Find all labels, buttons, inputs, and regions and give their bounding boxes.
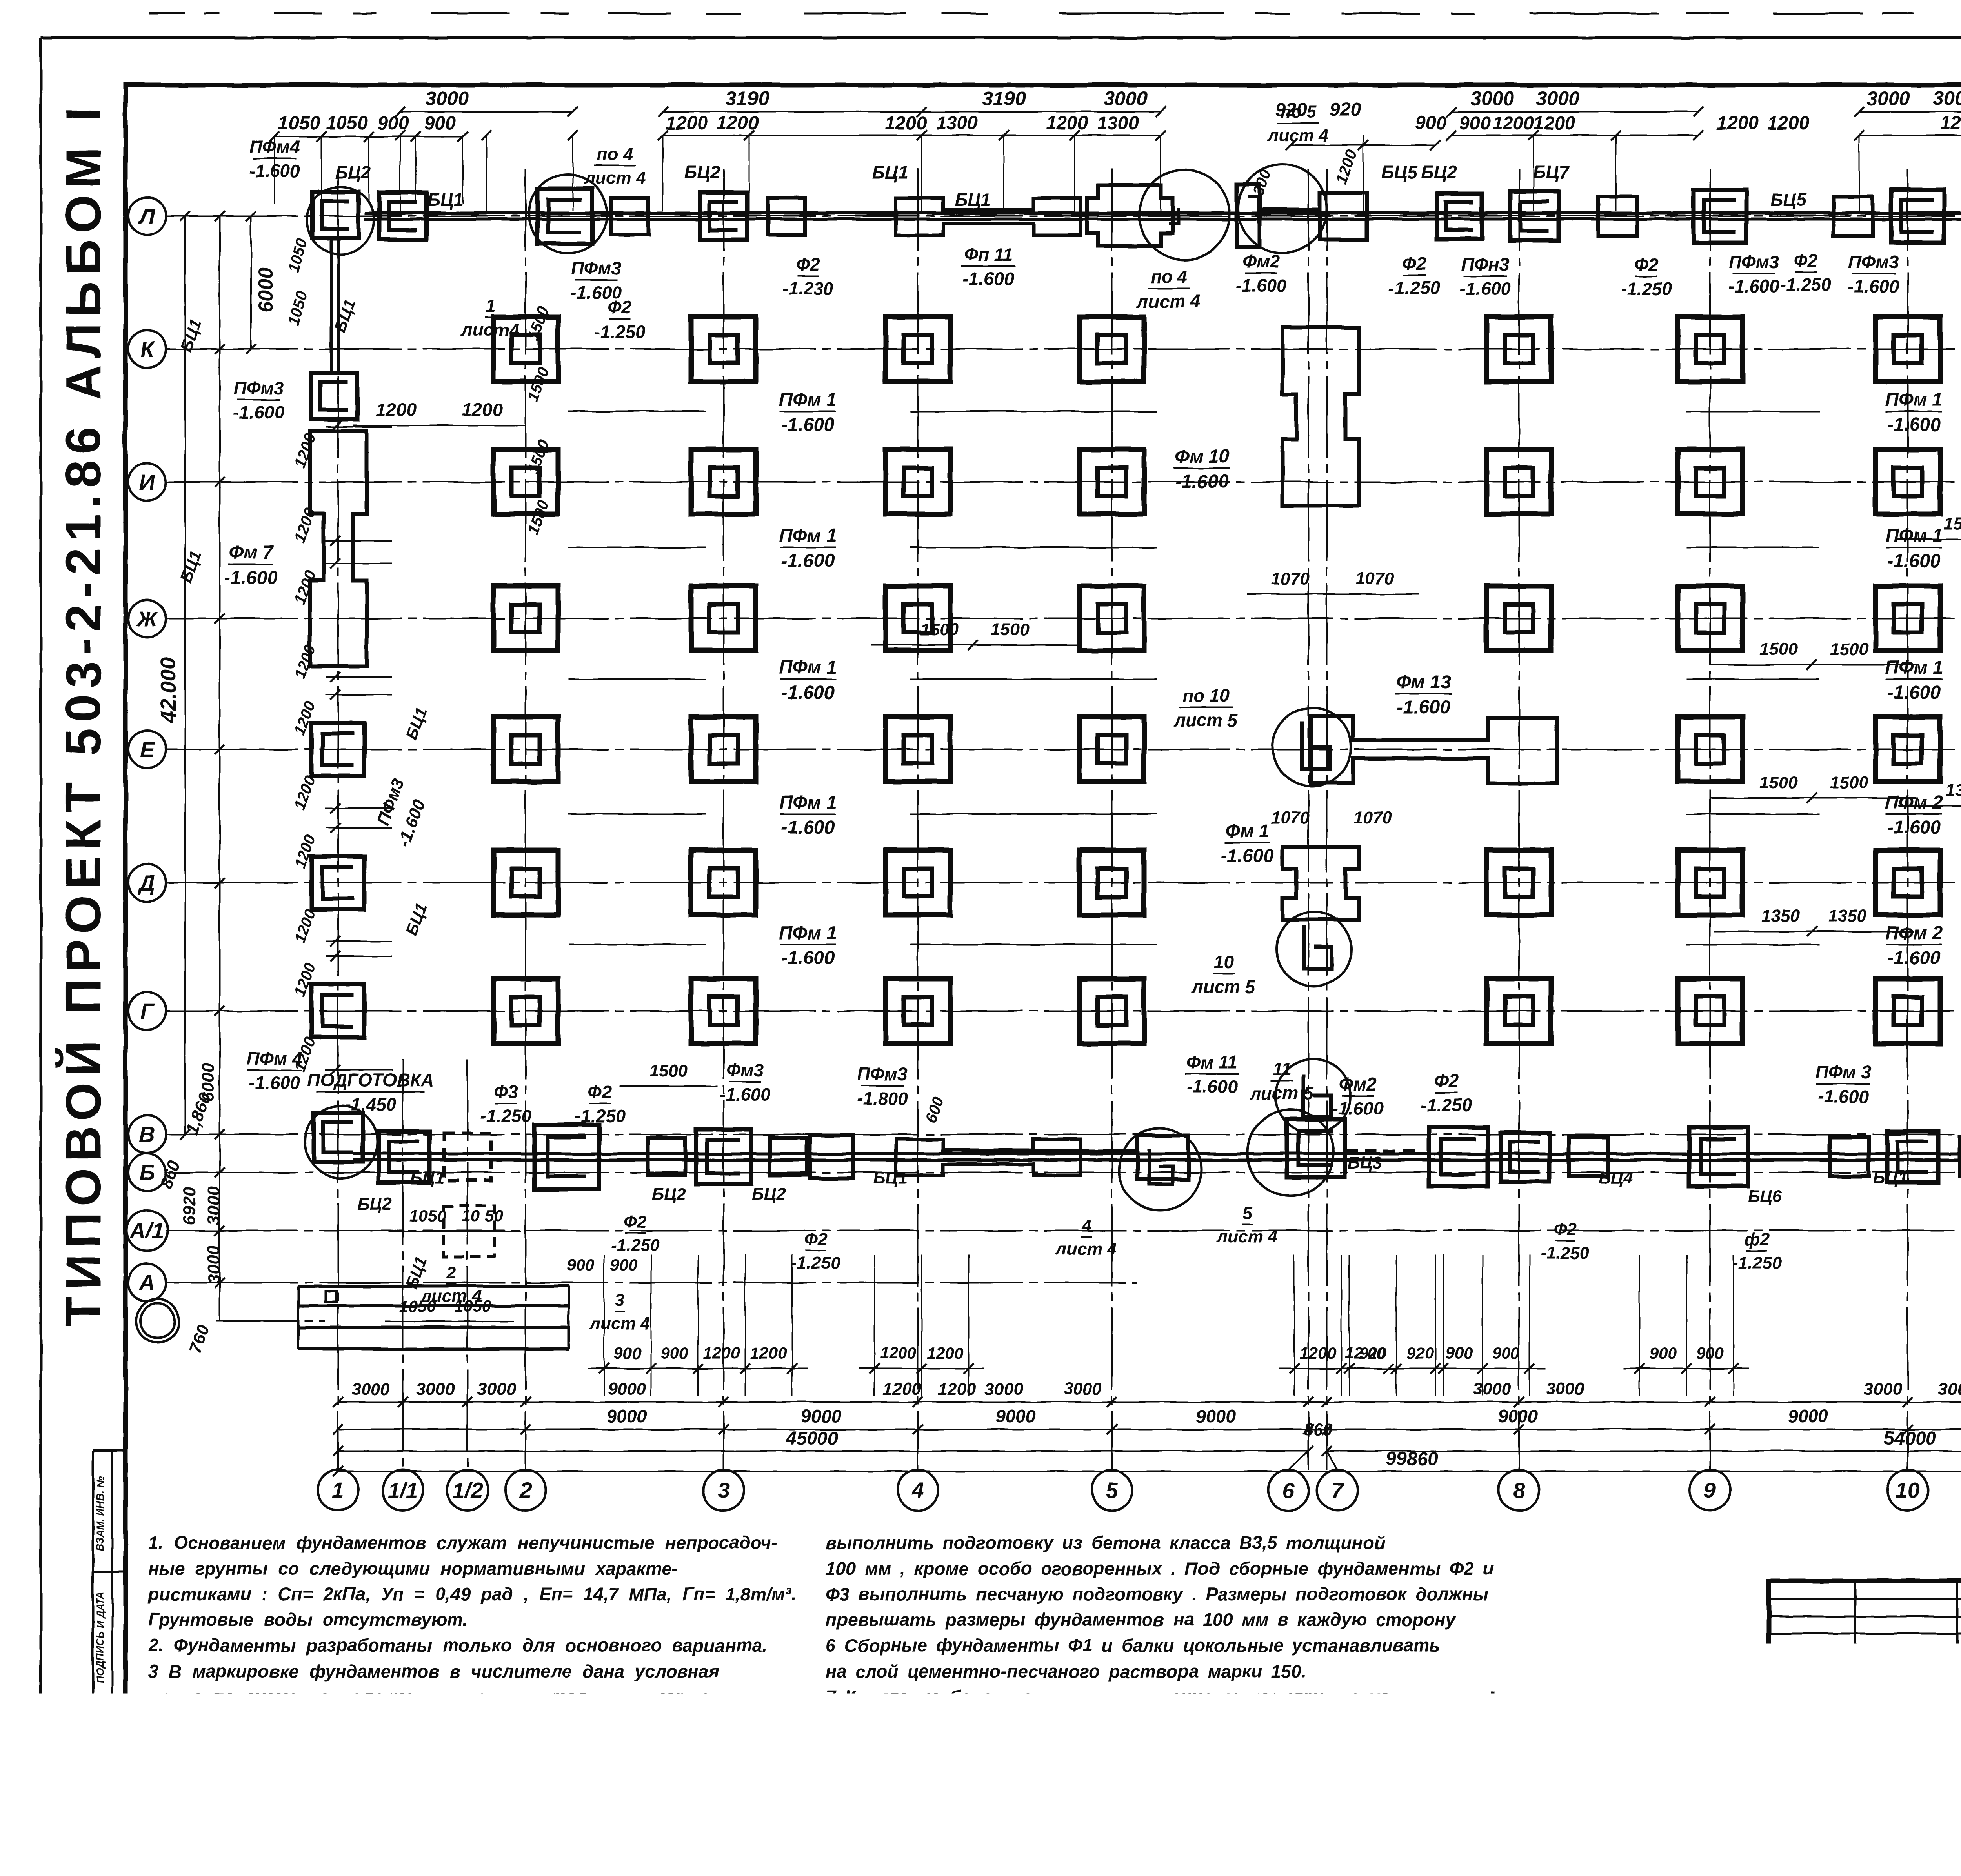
svg-text:3000: 3000 bbox=[416, 1380, 455, 1399]
svg-text:860: 860 bbox=[1303, 1420, 1332, 1439]
svg-text:по 10: по 10 bbox=[1182, 685, 1230, 706]
svg-text:1200: 1200 bbox=[376, 399, 417, 420]
svg-text:1200: 1200 bbox=[885, 113, 927, 134]
foundation ПФм1 3-Е bbox=[691, 717, 756, 782]
svg-text:Ж: Ж bbox=[136, 606, 158, 631]
svg-text:К: К bbox=[140, 337, 155, 362]
svg-text:В: В bbox=[139, 1122, 155, 1147]
svg-text:1200: 1200 bbox=[1299, 1344, 1336, 1362]
svg-text:6 Сборные фундаменты Ф1 и: 6 Сборные фундаменты Ф1 и балки цокольны… bbox=[826, 1635, 1440, 1656]
svg-text:900: 900 bbox=[424, 113, 456, 134]
svg-text:ПФм 2: ПФм 2 bbox=[1885, 923, 1943, 943]
svg-text:ПФн3: ПФн3 bbox=[1461, 254, 1510, 274]
svg-text:-1.600: -1.600 bbox=[1887, 414, 1941, 435]
svg-text:Ф2: Ф2 bbox=[804, 1230, 828, 1249]
svg-text:-1.250: -1.250 bbox=[611, 1236, 660, 1255]
foundation 1-Е bbox=[311, 723, 364, 776]
svg-text:ПФм 1: ПФм 1 bbox=[1885, 525, 1943, 546]
svg-text:ПФм 1: ПФм 1 bbox=[779, 525, 837, 546]
cross column icon по4 bbox=[1087, 185, 1173, 246]
svg-text:ПОДПИСЬ И ДАТА: ПОДПИСЬ И ДАТА bbox=[94, 1591, 106, 1683]
foundation ПФм1 9-Д bbox=[1678, 850, 1743, 915]
svg-text:-1.600: -1.600 bbox=[1848, 276, 1899, 296]
svg-text:5. Под монолитные фундаменты: 5. Под монолитные фундаменты и плиты фун… bbox=[148, 1789, 726, 1810]
svg-text:по 4: по 4 bbox=[597, 145, 633, 164]
svg-text:Ф2: Ф2 bbox=[1434, 1071, 1459, 1091]
svg-text:БЦ2: БЦ2 bbox=[1421, 162, 1457, 182]
foundation ПФм1 5-Д bbox=[1079, 850, 1144, 915]
extra bottom row line bbox=[216, 1320, 326, 1322]
svg-text:1200: 1200 bbox=[717, 113, 759, 134]
svg-text:-1.600: -1.600 bbox=[1818, 1086, 1869, 1107]
foundation ПФм1 2-И bbox=[493, 449, 558, 514]
svg-text:Рубан: Рубан bbox=[1859, 1746, 1899, 1761]
svg-text:Фп 11: Фп 11 bbox=[964, 244, 1013, 265]
svg-text:10: 10 bbox=[1896, 1478, 1920, 1503]
svg-text:8. Обратную засыпку пазух п: 8. Обратную засыпку пазух производить ме… bbox=[826, 1738, 1459, 1758]
svg-text:3000: 3000 bbox=[351, 1380, 390, 1399]
svg-text:ф2: ф2 bbox=[1745, 1230, 1770, 1249]
svg-text:920: 920 bbox=[1330, 100, 1361, 120]
outer sheet border bbox=[40, 38, 42, 1836]
svg-text:лист 4: лист 4 bbox=[589, 1314, 650, 1333]
svg-text:-1.250: -1.250 bbox=[1389, 278, 1440, 298]
svg-text:2: 2 bbox=[519, 1478, 531, 1503]
svg-text:-1.600: -1.600 bbox=[781, 682, 835, 703]
top dimension extension lines bbox=[400, 135, 401, 211]
svg-text:900: 900 bbox=[1445, 1344, 1473, 1362]
svg-text:7 Крепление балок цокольны: 7 Крепление балок цокольных к колонне вы… bbox=[826, 1687, 1395, 1707]
svg-text:300: 300 bbox=[1250, 167, 1275, 198]
svg-text:1050: 1050 bbox=[278, 113, 320, 134]
column base 4715-Б bbox=[1830, 1137, 1869, 1176]
svg-text:Гл. коностр.: Гл. коностр. bbox=[1773, 1746, 1858, 1761]
svg-text:1300: 1300 bbox=[1097, 113, 1139, 134]
svg-text:БЦ1: БЦ1 bbox=[872, 162, 908, 182]
svg-text:ПФм 4: ПФм 4 bbox=[247, 1048, 302, 1069]
svg-text:ИНВ. № ПОДЛ.: ИНВ. № ПОДЛ. bbox=[94, 1731, 106, 1806]
svg-text:Фм 13: Фм 13 bbox=[1396, 672, 1451, 693]
svg-text:номерно со всех сторон фун: номерно со всех сторон фундаментов слоям… bbox=[826, 1764, 1404, 1784]
svg-text:1500: 1500 bbox=[1830, 640, 1868, 659]
svg-text:900: 900 bbox=[567, 1256, 594, 1274]
svg-text:-1.600: -1.600 bbox=[781, 551, 835, 571]
svg-text:1500: 1500 bbox=[524, 304, 553, 343]
foundation ПФм1 8-И bbox=[1486, 449, 1551, 514]
svg-text:БЦ3: БЦ3 bbox=[1348, 1153, 1382, 1172]
empty double bubble bottom-left bbox=[136, 1299, 179, 1342]
svg-text:3 В маркировке фундаментов: 3 В маркировке фундаментов в числителе д… bbox=[148, 1661, 720, 1681]
по5 icon bbox=[1237, 184, 1259, 247]
svg-text:3000: 3000 bbox=[1104, 87, 1147, 109]
column base 4725-Л bbox=[1834, 196, 1873, 236]
svg-text:42.000: 42.000 bbox=[156, 657, 180, 723]
svg-text:1200: 1200 bbox=[291, 960, 319, 999]
svg-text:9000: 9000 bbox=[1788, 1406, 1828, 1426]
svg-text:лист 5: лист 5 bbox=[1173, 710, 1238, 730]
column base 1845-Л bbox=[700, 193, 747, 240]
beam БЦ1 down column 1 bbox=[330, 239, 333, 373]
foundation ПФм1 5-Г bbox=[1079, 979, 1144, 1043]
column base 2005-Л bbox=[768, 198, 805, 235]
svg-text:9000: 9000 bbox=[996, 1406, 1036, 1426]
foundation ПФм1 8-Г bbox=[1486, 979, 1551, 1043]
svg-text:БЦ2: БЦ2 bbox=[335, 162, 371, 182]
svg-text:1050: 1050 bbox=[285, 236, 311, 274]
foundation ПФм1 8-Д bbox=[1486, 850, 1551, 915]
svg-text:1500: 1500 bbox=[1759, 640, 1798, 659]
svg-text:3000: 3000 bbox=[985, 1380, 1023, 1399]
column base 3718-Б bbox=[1429, 1127, 1488, 1186]
svg-text:1500: 1500 bbox=[920, 620, 959, 639]
svg-text:Ф2: Ф2 bbox=[1554, 1220, 1577, 1239]
foundation ПФм1 3-Д bbox=[691, 850, 756, 915]
svg-text:2. Фундаменты разработаны то: 2. Фундаменты разработаны только для осн… bbox=[148, 1635, 767, 1656]
svg-text:99860: 99860 bbox=[1386, 1449, 1438, 1469]
top dimension lines bbox=[275, 136, 463, 137]
svg-text:ТИПОВОЙ ПРОЕКТ 503-2-21.86: ТИПОВОЙ ПРОЕКТ 503-2-21.86 АЛЬБОМ I bbox=[55, 101, 111, 1326]
svg-text:1200: 1200 bbox=[703, 1344, 740, 1362]
foundation 1-Д bbox=[311, 856, 364, 909]
svg-text:-1.250: -1.250 bbox=[1621, 278, 1672, 299]
svg-text:ПФм3: ПФм3 bbox=[234, 378, 284, 398]
svg-text:лист 5: лист 5 bbox=[1249, 1083, 1314, 1103]
svg-text:ПФм4: ПФм4 bbox=[249, 136, 300, 157]
svg-text:2: 2 bbox=[446, 1263, 456, 1282]
svg-text:Фм 1: Фм 1 bbox=[1225, 821, 1269, 842]
foundation ПФм1 5-Е bbox=[1079, 717, 1144, 782]
svg-text:1/2: 1/2 bbox=[452, 1478, 483, 1503]
svg-text:Л: Л bbox=[138, 204, 155, 229]
svg-text:3000: 3000 bbox=[204, 1187, 224, 1225]
svg-text:БЦ5: БЦ5 bbox=[1381, 162, 1418, 182]
svg-text:900: 900 bbox=[1696, 1344, 1724, 1362]
svg-text:1500: 1500 bbox=[524, 498, 553, 537]
column base 3913-Л bbox=[1510, 191, 1559, 240]
column base 1192-Б bbox=[444, 1133, 491, 1180]
foundation ПФм1 9-И bbox=[1678, 449, 1743, 514]
svg-text:Фм 10: Фм 10 bbox=[1175, 446, 1230, 467]
svg-text:-1.600: -1.600 bbox=[1236, 275, 1287, 296]
svg-text:3000: 3000 bbox=[204, 1245, 224, 1284]
svg-text:Д: Д bbox=[138, 871, 155, 895]
foundation ПФм1 3-Ж bbox=[691, 586, 756, 651]
svg-text:ПФм 1: ПФм 1 bbox=[779, 923, 837, 943]
svg-text:760: 760 bbox=[186, 1322, 213, 1356]
column base 4889-Л bbox=[1891, 190, 1944, 243]
column base 4385-Л bbox=[1694, 190, 1746, 243]
column axis lines bbox=[337, 169, 339, 1470]
svg-text:-1.600: -1.600 bbox=[1175, 471, 1229, 492]
svg-text:1200: 1200 bbox=[1940, 113, 1961, 134]
svg-text:900: 900 bbox=[614, 1344, 641, 1362]
column base 4382-Б bbox=[1689, 1127, 1748, 1186]
svg-text:-1.600: -1.600 bbox=[1460, 278, 1511, 299]
svg-text:1200: 1200 bbox=[938, 1380, 976, 1399]
svg-text:лист 4: лист 4 bbox=[1216, 1227, 1278, 1246]
svg-text:900: 900 bbox=[1492, 1344, 1520, 1362]
Ф2 dashed square below Б left bbox=[443, 1206, 494, 1257]
svg-text:10: 10 bbox=[1213, 952, 1234, 973]
svg-text:по 5: по 5 bbox=[1281, 102, 1316, 122]
svg-text:3000: 3000 bbox=[1866, 87, 1910, 109]
svg-text:Ф2: Ф2 bbox=[1794, 250, 1818, 271]
detail circle по5 top bbox=[1238, 164, 1327, 253]
svg-text:ристиками : Сп= 2кПа, Уп =: ристиками : Сп= 2кПа, Уп = 0,49 рад , Еп… bbox=[147, 1584, 796, 1604]
svg-text:-1.600: -1.600 bbox=[249, 161, 300, 181]
svg-text:-1.600: -1.600 bbox=[1186, 1076, 1238, 1097]
svg-text:6: 6 bbox=[1282, 1478, 1295, 1503]
foundation ПФм1 10-К bbox=[1876, 317, 1940, 382]
svg-text:-1.250: -1.250 bbox=[791, 1253, 840, 1272]
column base 1440-Л bbox=[537, 189, 592, 244]
row axis bubbles bbox=[128, 197, 166, 235]
svg-text:Фм2: Фм2 bbox=[1339, 1074, 1377, 1094]
svg-text:Инв. №: Инв. № bbox=[1504, 1808, 1561, 1825]
svg-text:ПФм 1: ПФм 1 bbox=[1885, 657, 1943, 678]
svg-text:900: 900 bbox=[661, 1344, 688, 1362]
svg-text:-1.250: -1.250 bbox=[480, 1106, 532, 1126]
top dimension upper line bbox=[400, 111, 573, 113]
left vertical dim line bbox=[219, 216, 220, 1321]
svg-text:3: 3 bbox=[717, 1478, 729, 1503]
detail circle ПФм3 top bbox=[529, 175, 607, 253]
bottom dim row 3000s bbox=[338, 1401, 1961, 1403]
H beam foundation row Б col4 bbox=[896, 1139, 1081, 1175]
svg-text:900: 900 bbox=[1459, 113, 1490, 134]
svg-text:6000: 6000 bbox=[255, 267, 277, 313]
row axis lines bbox=[216, 215, 1961, 217]
svg-text:1: 1 bbox=[332, 1478, 344, 1503]
foundation 1-Г bbox=[311, 984, 364, 1037]
svg-text:45000: 45000 bbox=[785, 1428, 838, 1449]
svg-text:БЦ2: БЦ2 bbox=[684, 162, 720, 182]
svg-text:по 4: по 4 bbox=[1150, 267, 1188, 287]
title block left table bbox=[1769, 1598, 1961, 1600]
svg-text:-1.600: -1.600 bbox=[1332, 1098, 1384, 1118]
svg-text:лу 1 серии 1.030.1-1, вып.: лу 1 серии 1.030.1-1, вып. 3-1. bbox=[825, 1712, 1109, 1732]
svg-text:Ф3: Ф3 bbox=[494, 1082, 518, 1102]
svg-text:Фм 11: Фм 11 bbox=[1186, 1052, 1237, 1073]
svg-text:-1.250: -1.250 bbox=[575, 1106, 626, 1126]
svg-text:ПФм 1: ПФм 1 bbox=[1885, 389, 1943, 410]
svg-text:-1.250: -1.250 bbox=[1541, 1243, 1590, 1263]
svg-text:лист 5: лист 5 bbox=[1191, 976, 1256, 997]
svg-text:3000: 3000 bbox=[425, 87, 469, 109]
svg-text:1050: 1050 bbox=[399, 1297, 436, 1315]
foundation ПФм1 9-К bbox=[1678, 317, 1743, 382]
svg-text:3: 3 bbox=[615, 1291, 624, 1310]
svg-text:1500: 1500 bbox=[649, 1061, 688, 1080]
svg-text:1070: 1070 bbox=[1271, 808, 1310, 827]
svg-text:ПФм3: ПФм3 bbox=[571, 258, 622, 278]
svg-text:Финкер: Финкер bbox=[1859, 1678, 1908, 1693]
foundation ПФм1 8-Ж bbox=[1486, 586, 1551, 651]
svg-text:3000: 3000 bbox=[1933, 87, 1961, 109]
svg-text:1500: 1500 bbox=[1830, 773, 1868, 792]
svg-text:7: 7 bbox=[1331, 1478, 1344, 1503]
svg-text:9000: 9000 bbox=[1196, 1406, 1236, 1426]
svg-text:1200: 1200 bbox=[1046, 113, 1088, 134]
svg-text:БЦ1: БЦ1 bbox=[1873, 1168, 1908, 1187]
svg-text:3000: 3000 bbox=[1938, 1380, 1961, 1399]
bottom dim row 99860 bbox=[338, 1471, 1961, 1472]
column base 1605-Л bbox=[611, 198, 648, 235]
svg-text:Е: Е bbox=[140, 737, 155, 762]
column base 1030-Б bbox=[378, 1131, 429, 1182]
svg-text:ГиП: ГиП bbox=[1773, 1678, 1799, 1693]
svg-text:8: 8 bbox=[1513, 1478, 1525, 1503]
bottom small dim groups bbox=[588, 1368, 808, 1369]
svg-text:1200: 1200 bbox=[883, 1380, 921, 1399]
svg-text:И: И bbox=[139, 470, 156, 494]
svg-text:БЦ4: БЦ4 bbox=[1599, 1168, 1633, 1187]
svg-text:БЦ2: БЦ2 bbox=[651, 1185, 686, 1204]
svg-text:1200: 1200 bbox=[1768, 113, 1810, 134]
foundation ПФм1 10-Г bbox=[1876, 979, 1940, 1043]
detail circle 5 bottom bbox=[1247, 1110, 1333, 1196]
svg-text:Вед. инж: Вед. инж bbox=[1773, 1789, 1832, 1804]
svg-text:превышать размеры фундамент: превышать размеры фундаментов на 100 мм … bbox=[826, 1609, 1457, 1630]
foundation ПФм1 2-К bbox=[493, 317, 558, 382]
svg-text:3000: 3000 bbox=[1470, 87, 1514, 109]
svg-text:-1.600: -1.600 bbox=[224, 567, 278, 588]
svg-text:1050: 1050 bbox=[409, 1207, 446, 1225]
svg-text:А: А bbox=[138, 1271, 155, 1295]
svg-text:920: 920 bbox=[1406, 1344, 1433, 1362]
svg-text:Фм2: Фм2 bbox=[1242, 251, 1280, 271]
foundation ПФм1 3-И bbox=[691, 449, 756, 514]
svg-text:1200: 1200 bbox=[291, 431, 319, 470]
svg-text:1300: 1300 bbox=[936, 113, 978, 134]
svg-text:Нач.отд: Нач.отд bbox=[1773, 1722, 1829, 1737]
svg-text:Ф2: Ф2 bbox=[1402, 253, 1426, 274]
svg-text:Гл. спец.: Гл. спец. bbox=[1773, 1769, 1832, 1783]
svg-text:Ф2: Ф2 bbox=[608, 297, 632, 318]
svg-text:БЦ6: БЦ6 bbox=[1748, 1187, 1782, 1206]
svg-text:БЦ7: БЦ7 bbox=[1533, 162, 1570, 182]
svg-text:1200: 1200 bbox=[291, 907, 319, 945]
foundation ПФм1 10-И bbox=[1876, 449, 1940, 514]
svg-text:1500: 1500 bbox=[1944, 514, 1961, 533]
svg-text:3000: 3000 bbox=[1473, 1380, 1512, 1399]
svg-text:1070: 1070 bbox=[1353, 808, 1392, 827]
column base 1027-Л bbox=[379, 193, 426, 240]
foundation ПФм1 4-Ж bbox=[886, 586, 950, 651]
svg-text:-1.600: -1.600 bbox=[1887, 551, 1941, 571]
svg-text:1500: 1500 bbox=[991, 620, 1029, 639]
svg-text:ПФм3: ПФм3 bbox=[1729, 252, 1779, 272]
foundation ПФм1 10-Д bbox=[1876, 850, 1940, 915]
foundation ПФм1 2-Е bbox=[493, 717, 558, 782]
foundation ПФм1 4-И bbox=[886, 449, 950, 514]
svg-text:-1.800: -1.800 bbox=[857, 1088, 908, 1109]
foundation ПФм1 4-Г bbox=[886, 979, 950, 1043]
registry table bbox=[1493, 1693, 1769, 1830]
svg-text:-1.600: -1.600 bbox=[233, 402, 285, 422]
foundation ПФм1 4-Д bbox=[886, 850, 950, 915]
svg-text:выполнить подготовку из бет: выполнить подготовку из бетона класса В3… bbox=[826, 1532, 1385, 1553]
svg-text:БЦ1: БЦ1 bbox=[410, 1168, 445, 1187]
bottom dim verticals bbox=[604, 1255, 605, 1396]
svg-text:Фм3: Фм3 bbox=[726, 1060, 764, 1080]
foundation Фм13 dumbbell Е bbox=[1311, 716, 1557, 783]
svg-text:лист 4: лист 4 bbox=[584, 168, 646, 187]
svg-text:3190: 3190 bbox=[982, 87, 1026, 109]
svg-text:900: 900 bbox=[1415, 113, 1446, 134]
column base 4125-Л bbox=[1598, 196, 1637, 236]
svg-text:1070: 1070 bbox=[1271, 569, 1310, 588]
svg-text:-1.600: -1.600 bbox=[1728, 276, 1780, 296]
svg-text:-1.600: -1.600 bbox=[781, 414, 835, 435]
svg-text:3000: 3000 bbox=[477, 1380, 516, 1399]
svg-text:БЦ1: БЦ1 bbox=[331, 297, 359, 334]
svg-text:Розенблат: Розенблат bbox=[1859, 1769, 1934, 1783]
svg-text:-1.600: -1.600 bbox=[1887, 682, 1941, 703]
svg-text:1200: 1200 bbox=[291, 699, 319, 738]
title block frame bbox=[1769, 1581, 1961, 1828]
svg-text:1,860: 1,860 bbox=[182, 1090, 215, 1137]
svg-text:-1.250: -1.250 bbox=[1780, 274, 1832, 295]
column base 3721-Л bbox=[1437, 194, 1482, 239]
svg-text:900: 900 bbox=[610, 1256, 637, 1274]
left margin stamp boxes bbox=[92, 1451, 94, 1836]
svg-text:Б: Б bbox=[139, 1160, 155, 1185]
foundation ПФм1 2-Ж bbox=[493, 586, 558, 651]
svg-text:-1.250: -1.250 bbox=[1421, 1095, 1472, 1115]
svg-text:1050: 1050 bbox=[326, 113, 368, 134]
detail circle по4 top bbox=[1139, 170, 1230, 260]
svg-text:БЦ1: БЦ1 bbox=[176, 548, 205, 585]
svg-text:БЦ2: БЦ2 bbox=[357, 1194, 392, 1214]
svg-text:9000: 9000 bbox=[607, 1406, 647, 1426]
svg-text:-1.600: -1.600 bbox=[781, 817, 835, 838]
svg-text:на слой цементно-песчаного: на слой цементно-песчаного раствора марк… bbox=[826, 1661, 1306, 1681]
svg-text:3000: 3000 bbox=[1546, 1380, 1584, 1399]
svg-text:10 50: 10 50 bbox=[462, 1207, 503, 1225]
svg-text:4. На схеме расположения у: 4. На схеме расположения условно не зама… bbox=[148, 1738, 671, 1758]
svg-text:9000: 9000 bbox=[1498, 1406, 1538, 1426]
svg-text:1. Основанием фундаментов сл: 1. Основанием фундаментов служат непучин… bbox=[148, 1532, 777, 1553]
svg-text:1: 1 bbox=[485, 295, 495, 316]
svg-text:1200: 1200 bbox=[291, 773, 319, 812]
svg-text:1200: 1200 bbox=[291, 832, 319, 871]
svg-text:-1.600: -1.600 bbox=[781, 948, 835, 969]
foundation ПФм1 2-Д bbox=[493, 850, 558, 915]
svg-text:1200: 1200 bbox=[1332, 147, 1361, 186]
foundation ПФм1 4-К bbox=[886, 317, 950, 382]
foundation ПФм1 3-К bbox=[691, 317, 756, 382]
svg-text:1050: 1050 bbox=[454, 1297, 491, 1315]
svg-text:сборные фундаменты марки: сборные фундаменты марки Ф1. bbox=[148, 1764, 466, 1784]
svg-text:трамбованием до плотности об: трамбованием до плотности обратной засып… bbox=[826, 1789, 1448, 1810]
foundation ПФм4 1-Л circled bbox=[312, 192, 358, 238]
svg-text:ПФм 3: ПФм 3 bbox=[1815, 1062, 1871, 1082]
svg-text:920: 920 bbox=[1359, 1344, 1386, 1362]
svg-text:БЦ1: БЦ1 bbox=[427, 189, 463, 210]
svg-text:9000: 9000 bbox=[801, 1406, 841, 1426]
svg-text:лист 4: лист 4 bbox=[1055, 1240, 1117, 1259]
foundation ПФм1 9-Г bbox=[1678, 979, 1743, 1043]
svg-text:5: 5 bbox=[1106, 1478, 1118, 1503]
column base 2010-Б bbox=[769, 1138, 807, 1175]
svg-text:лист 4: лист 4 bbox=[1136, 291, 1201, 311]
foundation ПФм1 4-Е bbox=[886, 717, 950, 782]
foundation ПФм1 9-Ж bbox=[1678, 586, 1743, 651]
detail circle 4 bottom bbox=[1119, 1128, 1201, 1211]
svg-text:подошвы фундамента или подг: подошвы фундамента или подготовки. bbox=[148, 1712, 534, 1732]
svg-text:1350: 1350 bbox=[1946, 781, 1961, 800]
